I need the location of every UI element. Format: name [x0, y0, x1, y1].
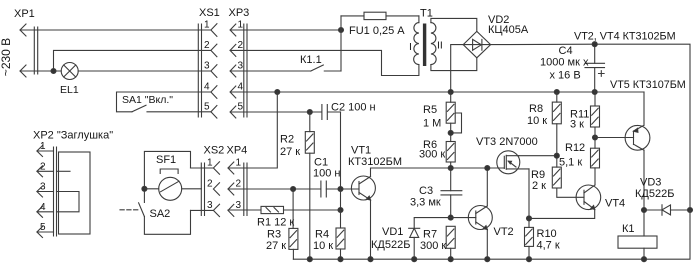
svg-text:C3: C3	[419, 185, 433, 197]
capacitor C1	[313, 157, 340, 198]
resistor R5 trimmer	[423, 92, 462, 142]
node junction R11/R12/VT5 base	[593, 135, 598, 140]
node junction VT2 collector / gate wire	[485, 166, 490, 171]
resistor R3	[266, 189, 298, 259]
svg-text:10 к: 10 к	[313, 240, 333, 252]
svg-text:х 16 В: х 16 В	[550, 70, 581, 82]
connector XP2 dummy plug	[33, 130, 113, 238]
transistor VT4	[576, 185, 625, 210]
wire XP1 pin2 / EL1 branch	[20, 50, 211, 71]
MOSFET VT3	[476, 136, 538, 174]
svg-text:XP4: XP4	[227, 145, 248, 157]
switch SA2	[120, 203, 170, 220]
wire XP2 pin2 stub	[57, 170, 71, 172]
wire minus rail bottom	[293, 210, 690, 259]
XP2 shorting plug body	[59, 152, 91, 234]
node junction C4 bottom / plus rail	[592, 90, 597, 95]
node junction rail R7	[448, 257, 453, 262]
svg-text:3: 3	[40, 182, 46, 193]
transistor VT1	[348, 145, 402, 201]
wire XP4 pin3	[228, 209, 261, 211]
wire VT1 collector	[371, 168, 505, 177]
connector XS1	[198, 7, 219, 118]
svg-text:1: 1	[204, 20, 210, 31]
svg-text:XP3: XP3	[229, 7, 250, 19]
wire XP3 pin2 to T1 primary bottom	[230, 50, 419, 75]
node junction VD3 left	[642, 208, 647, 213]
svg-text:10 к: 10 к	[527, 115, 547, 127]
diode bridge VD2	[463, 14, 529, 58]
svg-text:К1.1: К1.1	[300, 54, 322, 66]
wire VT5 collector to K1	[643, 150, 645, 236]
node junction rail R10	[527, 257, 532, 262]
svg-text:3: 3	[238, 61, 244, 72]
wire minus rail top	[491, 44, 690, 210]
svg-text:КД522Б: КД522Б	[371, 239, 410, 251]
svg-text:SA1 "Вкл.": SA1 "Вкл."	[122, 94, 173, 106]
lamp EL1	[60, 63, 79, 97]
node junction R6/C3/gate wire	[448, 166, 453, 171]
svg-text:1: 1	[238, 20, 244, 31]
svg-text:VT5 КТ3107БМ: VT5 КТ3107БМ	[610, 79, 686, 91]
svg-text:5: 5	[204, 102, 210, 113]
transistor VT2	[451, 206, 514, 239]
connector XS2	[191, 145, 225, 217]
diode VD1	[371, 218, 451, 260]
svg-text:R5: R5	[423, 104, 437, 116]
capacitor C2	[310, 102, 376, 120]
svg-text:1: 1	[207, 158, 213, 169]
node junction R10/VT3 source	[527, 216, 532, 221]
svg-text:R1 12 к: R1 12 к	[257, 217, 294, 229]
svg-text:R12: R12	[565, 142, 585, 154]
svg-text:R4: R4	[315, 229, 329, 241]
svg-text:КТ3102БМ: КТ3102БМ	[348, 156, 402, 168]
svg-text:XS2: XS2	[204, 145, 225, 157]
svg-text:1: 1	[236, 158, 242, 169]
svg-text:VD1: VD1	[382, 226, 403, 238]
resistor R4	[313, 210, 345, 259]
svg-text:27 к: 27 к	[280, 146, 300, 158]
node junction rail VT2 emitter	[485, 257, 490, 262]
capacitor C4	[540, 44, 605, 92]
svg-text:К1: К1	[622, 223, 635, 235]
svg-text:5: 5	[40, 222, 46, 233]
svg-text:VT1: VT1	[351, 145, 371, 157]
svg-text:2: 2	[236, 179, 242, 190]
svg-text:3 к: 3 к	[570, 119, 584, 131]
svg-text:SA2: SA2	[150, 208, 171, 220]
svg-text:2: 2	[204, 40, 210, 51]
wire T1 secondary top to bridge	[431, 18, 477, 31]
svg-text:4,7 к: 4,7 к	[537, 240, 560, 252]
resistor R2	[280, 112, 314, 259]
wire VT4 collector to R12	[594, 168, 596, 185]
wire VT2 collector	[486, 168, 488, 206]
svg-text:КЦ405А: КЦ405А	[488, 24, 529, 36]
connector XP4	[227, 145, 248, 217]
enclosure wiring SF1/SA2 box	[144, 151, 190, 234]
node junction SF1 left	[142, 186, 147, 191]
transistor VT5	[595, 125, 650, 150]
svg-text:R7: R7	[423, 229, 437, 241]
svg-text:VD3: VD3	[640, 177, 661, 189]
resistor R11	[570, 92, 600, 138]
wire XP1 pin1 to XS1 pin1 (mains L)	[20, 29, 211, 31]
resistor R12	[559, 138, 600, 169]
wire source node to VT4 emitter	[529, 209, 595, 218]
node junction VD1/R7/VT2 base	[448, 215, 453, 220]
wire C2 to base node	[340, 112, 342, 189]
svg-text:XS1: XS1	[199, 7, 220, 19]
svg-text:I: I	[409, 41, 412, 53]
node junction rail R2	[307, 257, 312, 262]
node junction drain/R8/R9	[554, 153, 559, 158]
connector XP3	[229, 7, 250, 118]
svg-text:C2 100 н: C2 100 н	[331, 102, 376, 114]
svg-text:ХР2 "Заглушка": ХР2 "Заглушка"	[33, 130, 113, 142]
wire XP3 pin1 to FU1 junction	[230, 29, 341, 31]
node junction EL1	[51, 69, 56, 74]
node junction rail K1	[642, 257, 647, 262]
wire VT2 emitter	[486, 230, 488, 260]
svg-text:4: 4	[238, 82, 244, 93]
fuse FU1	[341, 12, 419, 37]
svg-text:1000 мк х: 1000 мк х	[540, 57, 589, 69]
node junction R1/R4	[338, 208, 343, 213]
node junction R5 plus rail	[448, 90, 453, 95]
node junction rail VD1	[412, 257, 417, 262]
svg-text:КД522Б: КД522Б	[635, 188, 674, 200]
svg-text:4: 4	[40, 202, 46, 213]
transformer T1	[409, 8, 443, 67]
wire VT5 emitter to plus rail	[643, 92, 645, 125]
svg-text:3: 3	[204, 61, 210, 72]
svg-text:1: 1	[40, 141, 46, 152]
diode VD3	[635, 177, 690, 216]
node junction R3 top	[291, 187, 296, 192]
svg-text:R3: R3	[267, 229, 281, 241]
svg-text:2: 2	[238, 40, 244, 51]
svg-text:VT2, VT4 КТ3102БМ: VT2, VT4 КТ3102БМ	[574, 31, 676, 43]
svg-text:XP1: XP1	[14, 8, 35, 20]
wire T1 secondary bottom to bridge	[431, 58, 477, 71]
svg-text:FU1 0,25 А: FU1 0,25 А	[349, 25, 405, 37]
svg-text:100 н: 100 н	[313, 168, 340, 180]
svg-text:VT3 2N7000: VT3 2N7000	[476, 136, 538, 148]
node junction FU1/K1.1	[339, 28, 344, 33]
svg-text:2: 2	[40, 161, 46, 172]
resistor R10	[525, 218, 560, 259]
svg-text:VT2: VT2	[494, 226, 514, 238]
node junction C4 top / minus rail	[592, 42, 597, 47]
label VT2 VT4 types	[574, 31, 676, 43]
wire base node to R1 node	[340, 189, 342, 210]
node junction R2 top	[307, 110, 312, 115]
svg-text:C4: C4	[559, 45, 573, 57]
svg-text:II: II	[437, 40, 443, 52]
capacitor C3	[410, 168, 462, 218]
wire XP4 pin1 riser	[228, 92, 277, 168]
svg-text:5,1 к: 5,1 к	[559, 157, 582, 169]
node junction VD3 right	[688, 208, 693, 213]
node junction R5 bottom	[448, 130, 453, 135]
node junction rail R4	[338, 257, 343, 262]
svg-text:3,3 мк: 3,3 мк	[410, 197, 441, 209]
svg-text:R8: R8	[529, 103, 543, 115]
node junction base wire	[338, 187, 343, 192]
svg-text:2: 2	[207, 179, 213, 190]
relay coil K1	[618, 223, 657, 259]
wire VT1 emitter	[370, 200, 372, 259]
svg-text:2 к: 2 к	[532, 180, 546, 192]
svg-text:VT4: VT4	[605, 198, 625, 210]
resistor R1	[257, 206, 341, 228]
svg-text:~230 В: ~230 В	[0, 38, 13, 76]
node junction R8 top	[554, 90, 559, 95]
svg-text:R2: R2	[280, 134, 294, 146]
svg-text:EL1: EL1	[60, 84, 79, 96]
wire VT3 drain	[519, 155, 557, 157]
svg-text:3: 3	[207, 200, 213, 211]
connector XP1	[0, 8, 38, 77]
wire XP2 pins 3-4 jumper	[57, 192, 80, 212]
resistor R7	[420, 226, 455, 259]
thermal switch SF1	[144, 154, 201, 200]
svg-text:3: 3	[236, 200, 242, 211]
svg-text:300 к: 300 к	[420, 240, 446, 252]
wire VT3 source	[528, 169, 530, 219]
node junction XP4 pin1 to plus rail	[275, 90, 280, 95]
svg-text:5: 5	[238, 102, 244, 113]
wire bridge plus output to plus rail	[451, 45, 464, 92]
svg-text:R10: R10	[537, 228, 557, 240]
node junction rail VT1 emitter	[368, 257, 373, 262]
switch SA1	[117, 92, 211, 112]
wire junction riser to fuse and K1.1 contact	[340, 16, 342, 71]
wire XP4 pin2 base wire	[228, 188, 359, 190]
label VT5 type	[610, 79, 686, 91]
svg-text:4: 4	[204, 82, 210, 93]
wire XP3 pin5 to C2	[230, 111, 310, 113]
resistor R9	[531, 167, 584, 197]
svg-text:T1: T1	[420, 8, 433, 20]
svg-text:27 к: 27 к	[266, 240, 286, 252]
relay contact K1.1	[230, 54, 341, 71]
svg-text:SF1: SF1	[156, 154, 176, 166]
svg-text:1 М: 1 М	[423, 118, 441, 130]
svg-text:300 к: 300 к	[419, 149, 445, 161]
resistor R6	[419, 139, 455, 168]
wire plus rail (XP3 pin4)	[230, 91, 644, 93]
resistor R8	[527, 92, 561, 167]
